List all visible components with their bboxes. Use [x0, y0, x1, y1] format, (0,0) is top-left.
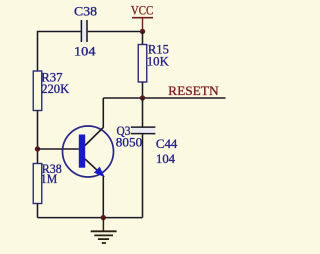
junction dot RESETN/R15/C44 [140, 95, 145, 100]
wire: collector up to RESETN [102, 98, 104, 128]
junction dot ground node [101, 215, 106, 220]
capacitor C44 [131, 98, 156, 218]
svg-text:104: 104 [156, 151, 175, 166]
power VCC [131, 3, 153, 32]
wire: R38 bottom to bottom rail [37, 204, 39, 218]
junction dot at VCC node [140, 29, 145, 34]
svg-text:220K: 220K [41, 81, 70, 96]
transistor Q3 [63, 126, 114, 177]
wire: emitter down to bottom rail [102, 176, 104, 218]
wire RESETN horizontal [103, 97, 225, 99]
svg-text:C44: C44 [156, 136, 178, 151]
svg-text:10K: 10K [147, 54, 170, 69]
svg-text:104: 104 [74, 44, 96, 59]
svg-text:C38: C38 [74, 3, 97, 18]
resistor R15 [138, 45, 147, 83]
svg-text:8050: 8050 [116, 134, 142, 149]
junction dot base node [35, 146, 40, 151]
svg-text:RESETN: RESETN [168, 83, 219, 98]
wire: VCC node to R15 top [142, 32, 144, 45]
svg-text:VCC: VCC [131, 3, 153, 18]
wire: R15 bottom to RESETN line [142, 82, 144, 98]
capacitor C38 [81, 20, 87, 42]
wire: R37 bottom to R38 top (left rail) [37, 111, 39, 164]
ground [91, 218, 117, 243]
resistor R38 [33, 164, 42, 204]
wire: C38 right plate to VCC stem [88, 31, 143, 33]
svg-text:1M: 1M [41, 171, 58, 186]
wire top-left: left rail top corner to C38 left plate [38, 32, 81, 72]
wire: base lead [38, 148, 79, 150]
resistor R37 [33, 71, 42, 111]
wire bottom rail [38, 217, 143, 219]
